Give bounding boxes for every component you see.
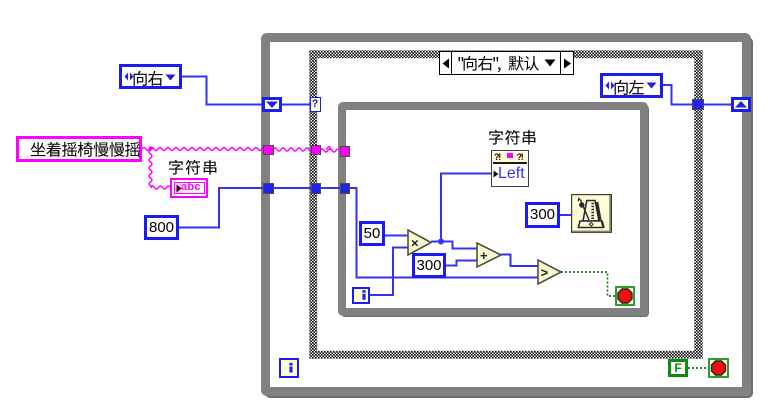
- wire add output to greater top input: [500, 255, 538, 267]
- case selector text "向右", 默认: [457, 53, 467, 75]
- wire numeric 800 into loops: [178, 188, 264, 228]
- svg-text:+: +: [480, 248, 488, 263]
- tunnel string (inner loop left): [340, 146, 350, 157]
- property node (string): [491, 150, 529, 187]
- tunnel string (outer loop left): [263, 145, 274, 156]
- greater-than function: [537, 259, 562, 285]
- wire multiply output to junction dot: [431, 241, 441, 243]
- case selector right arrow: [563, 58, 572, 69]
- numeric constant 50: [359, 221, 385, 246]
- wire 50 to multiply top input: [384, 235, 409, 237]
- stop condition terminal (inner loop): [615, 286, 635, 306]
- property node arrow: [493, 170, 499, 178]
- tunnel numeric (outer loop left): [263, 183, 274, 194]
- wire enum right-to-left-shift-register: [182, 77, 263, 105]
- shift register left (down arrow): [262, 97, 282, 112]
- case selector label box: [439, 51, 574, 75]
- wire inner tunnel down to greater bottom input: [348, 188, 538, 278]
- string wire constant to outer tunnel: [142, 148, 264, 151]
- case selector dropdown arrow: [544, 59, 556, 67]
- boolean wire greater to inner stop terminal (dotted green): [561, 272, 615, 296]
- junction dot: [438, 239, 444, 245]
- tunnel string (case left): [311, 145, 322, 156]
- wire junction up to property node Left input: [441, 174, 492, 242]
- wait-ms function (metronome icon): [571, 194, 612, 233]
- svg-text:>: >: [540, 265, 548, 280]
- while loop (outer) border: [261, 33, 751, 396]
- iteration terminal i (outer loop): [279, 358, 299, 378]
- tunnel numeric (inner loop left): [340, 183, 350, 194]
- wire left shift register to case selector ?: [281, 104, 311, 106]
- boolean wire F constant to outer stop terminal (dotted green): [688, 367, 709, 369]
- add function: [476, 242, 502, 268]
- case selector terminal ?: [310, 97, 321, 112]
- wire junction to add top input: [441, 242, 477, 249]
- tunnel enum (case right): [692, 99, 704, 111]
- string wire junction dot: [148, 146, 152, 150]
- string indicator abc: [170, 178, 208, 198]
- string wire outer tunnel to case tunnel: [273, 148, 312, 151]
- enum constant 向右: [119, 64, 182, 89]
- wire enum 向左 to case tunnel: [662, 85, 693, 105]
- stop condition terminal (outer loop): [708, 358, 729, 378]
- numeric constant 300 (add): [412, 253, 446, 278]
- string constant 坐着摇椅慢慢摇: [16, 136, 142, 162]
- while loop (inner) border: [338, 102, 648, 316]
- label 字符串 (property node): [488, 127, 540, 149]
- shift register right (up arrow): [731, 97, 751, 112]
- numeric constant 800: [144, 215, 179, 240]
- boolean constant F: [668, 359, 688, 377]
- case selector left arrow: [442, 58, 450, 69]
- wire i terminal to multiply bottom input: [369, 248, 409, 296]
- tunnel numeric (case left): [311, 183, 322, 194]
- multiply function: [407, 229, 432, 256]
- string wire branch down to indicator: [149, 150, 152, 188]
- iteration terminal i (inner loop): [352, 287, 370, 304]
- wire case tunnel to right shift register: [703, 104, 732, 106]
- string wire case tunnel to inner loop tunnel (with pigtail): [320, 149, 341, 152]
- svg-text:×: ×: [411, 235, 419, 250]
- numeric constant 300 (wait): [525, 202, 560, 228]
- property node text Left: [498, 164, 528, 183]
- enum constant 向左: [600, 73, 663, 98]
- label 字符串 (indicator): [168, 157, 221, 179]
- wire 300 to add bottom input: [446, 261, 477, 266]
- wire 300 to wait-ms: [560, 214, 572, 216]
